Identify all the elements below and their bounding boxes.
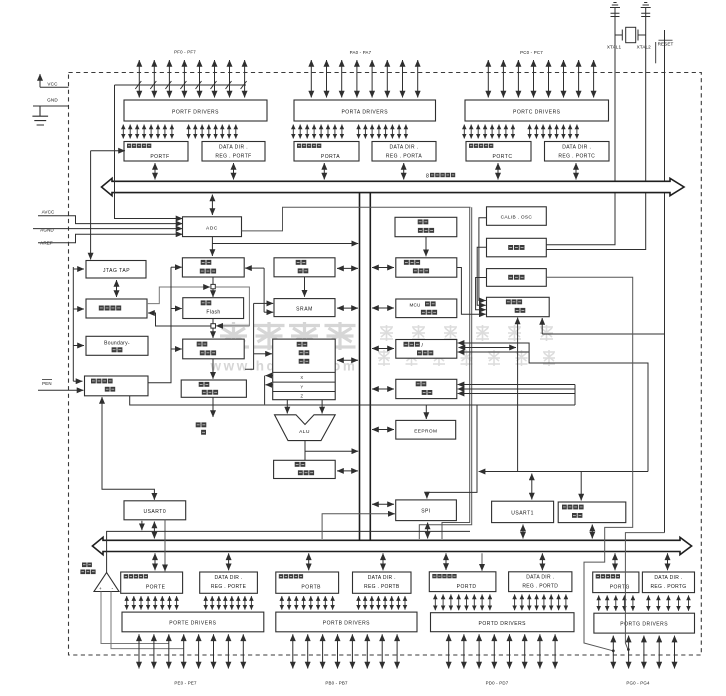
JTAG TAP to on-chip debug arrow [116, 280, 118, 297]
svg-text:AVCC: AVCC [42, 210, 55, 215]
data register PORTG [593, 572, 639, 593]
svg-text:RESET: RESET [658, 42, 674, 47]
oscillator 2 [487, 269, 547, 287]
USART1 clock arrow [531, 474, 533, 500]
data register PORTC [466, 142, 531, 162]
data register PORTD [429, 572, 496, 592]
watchdog timer [396, 258, 457, 277]
data direction register PORTF [202, 142, 265, 162]
8-bit data bus top [102, 178, 685, 195]
svg-text:REG . PORTA: REG . PORTA [386, 154, 422, 160]
instruction decoder [181, 380, 246, 397]
svg-text:PA0 - PA7: PA0 - PA7 [350, 50, 372, 55]
wire PORTF register to JTAG TAP [91, 150, 120, 152]
control lines arrow [212, 397, 214, 417]
svg-text:CALIB . OSC: CALIB . OSC [501, 214, 533, 220]
wire XTAL1 to oscillator [546, 17, 615, 245]
instruction register [183, 339, 245, 359]
comparator input wires [101, 592, 169, 644]
svg-text:REG . PORTE: REG . PORTE [211, 584, 247, 590]
status register [274, 460, 336, 478]
XTAL1 capacitor and ground [610, 3, 620, 17]
svg-text:REG . PORTF: REG . PORTF [215, 154, 251, 160]
wire RESET to timing and control [542, 333, 664, 335]
CPU column bus arrows [337, 267, 358, 269]
svg-text:Y: Y [300, 385, 303, 390]
wire RESET down [664, 30, 666, 533]
analog comparator [94, 573, 119, 592]
internal oscillator [395, 217, 457, 236]
OCD gray wire to breakpoints [147, 287, 204, 304]
data direction register PORTC [545, 142, 610, 162]
arrows registers to drivers PORTG [599, 595, 689, 610]
port pins PD0 - PD7 [449, 634, 555, 668]
svg-text:PORTD: PORTD [457, 584, 477, 590]
svg-text:DATA DIR .: DATA DIR . [219, 145, 248, 151]
watermark 华强集团旗下 [380, 325, 393, 341]
TWI clock arrow [580, 472, 582, 499]
arrows registers to drivers PORTE [127, 596, 252, 610]
clock net from timing and control [517, 319, 519, 472]
data register PORTF [124, 142, 188, 162]
crystal [626, 27, 636, 42]
pointer net C registers X Y [264, 376, 266, 405]
stack pointer [274, 258, 335, 277]
svg-text:XTAL2: XTAL2 [637, 45, 652, 50]
svg-text:-: - [111, 586, 113, 592]
wire oscillator2 to TOSC pins [546, 277, 632, 651]
extra line into PORTD register [481, 553, 483, 569]
breakpoint square 2 [211, 324, 216, 328]
svg-text:PORTA: PORTA [321, 154, 340, 160]
arrows drivers to registers PORTF [123, 125, 236, 139]
GND pin [33, 105, 69, 107]
arrows registers to drivers PORTD [435, 594, 566, 610]
arrow instruction register to decoder [212, 359, 214, 379]
comparator output wire [107, 531, 470, 572]
Boundary-scan [86, 336, 148, 355]
svg-text:PF0 - PF7: PF0 - PF7 [174, 50, 196, 55]
svg-text:+: + [99, 586, 102, 591]
wire programming logic to USART0 [102, 399, 154, 500]
svg-text:PORTB: PORTB [301, 584, 321, 590]
bus link arrows for top registers [154, 163, 156, 180]
arrows general registers to ALU [286, 400, 288, 414]
PORTD DRIVERS block [431, 613, 575, 632]
svg-text:XTAL1: XTAL1 [607, 45, 622, 50]
8-bit data bus bottom [92, 537, 691, 554]
wire ADC to program counter and bus [211, 237, 213, 254]
port pins PF0 - PF7 [139, 60, 244, 98]
svg-text:ADC: ADC [206, 225, 218, 231]
svg-text:MCU: MCU [409, 302, 420, 307]
port pins PC0 - PC7 [488, 60, 593, 98]
ADC [183, 217, 242, 237]
PORTB DRIVERS block [276, 612, 417, 632]
SPI [396, 500, 457, 521]
svg-text:PC0 - PC7: PC0 - PC7 [520, 50, 543, 55]
svg-text:SRAM: SRAM [296, 306, 313, 312]
interrupt unit [396, 379, 457, 398]
wire AVCC to ADC [38, 216, 174, 224]
svg-text:Z: Z [301, 394, 304, 399]
svg-text:DATA DIR .: DATA DIR . [368, 575, 396, 581]
svg-text:PORTC DRIVERS: PORTC DRIVERS [513, 110, 561, 116]
EEPROM [396, 420, 456, 439]
timing and control [487, 297, 550, 316]
svg-text:REG . PORTG: REG . PORTG [650, 584, 686, 590]
svg-text:VCC: VCC [47, 82, 58, 87]
svg-text:PORTD DRIVERS: PORTD DRIVERS [478, 621, 526, 627]
svg-text:PB0 - PB7: PB0 - PB7 [325, 681, 348, 686]
SPI left input stubs [372, 503, 394, 505]
svg-text:PORTE: PORTE [146, 584, 166, 590]
XTAL2 capacitor and ground [641, 3, 651, 17]
data direction register PORTA [372, 142, 436, 162]
svg-text:PORTG DRIVERS: PORTG DRIVERS [620, 622, 668, 628]
PORTG DRIVERS block [594, 613, 695, 633]
two-wire serial interface [558, 502, 626, 523]
arrows registers to drivers PORTB [282, 596, 405, 610]
arrow square2 to instruction register [212, 328, 214, 336]
analog comparator label [82, 563, 87, 568]
program counter [182, 258, 244, 277]
data direction register PORTB [353, 572, 412, 593]
wire AREF to ADC [38, 234, 174, 243]
programming logic service line [148, 267, 171, 383]
wire XTAL2 to oscillator [546, 17, 645, 250]
svg-text:DATA DIR .: DATA DIR . [389, 145, 418, 151]
data direction register PORTG [642, 572, 694, 593]
USART0 [124, 501, 186, 520]
port pins PE0 - PE7 [139, 634, 243, 668]
PORTA DRIVERS block [294, 100, 436, 121]
on-chip debug [86, 299, 147, 318]
calibrated oscillator [487, 207, 547, 226]
svg-text:PORTG: PORTG [610, 584, 630, 590]
data direction register PORTE [200, 572, 258, 593]
svg-text:DATA DIR .: DATA DIR . [654, 575, 682, 581]
oscillator 1 [487, 238, 547, 256]
svg-text:PORTB DRIVERS: PORTB DRIVERS [323, 621, 370, 627]
control lines label [196, 422, 201, 427]
JTAG TAP [86, 261, 146, 279]
pointer net A [245, 303, 254, 369]
arrow internal oscillator to watchdog [425, 237, 427, 257]
data register PORTA [294, 142, 359, 162]
data register PORTE [121, 572, 183, 593]
PORTF DRIVERS block [124, 100, 267, 121]
svg-text:X: X [300, 375, 303, 380]
vertical data bus channel [359, 193, 361, 541]
svg-text:PE0 - PE7: PE0 - PE7 [174, 681, 197, 686]
svg-text:PORTE DRIVERS: PORTE DRIVERS [169, 621, 216, 627]
data direction register PORTD [509, 572, 572, 592]
svg-text:EEPROM: EEPROM [414, 428, 437, 434]
svg-text:DATA DIR .: DATA DIR . [526, 575, 554, 581]
breakpoint square 1 [211, 284, 215, 288]
USART0 bus arrows [141, 521, 143, 529]
port pins PG0 - PG4 [613, 636, 674, 669]
svg-text:PD0 - PD7: PD0 - PD7 [486, 681, 509, 686]
wire ADC right to peripheral clock column [242, 207, 471, 231]
port pins PA0 - PA7 [311, 60, 417, 98]
ALU [275, 415, 336, 441]
oscillator feeds to timing and control [479, 218, 487, 301]
svg-text:PORTF: PORTF [150, 154, 169, 160]
svg-text:DATA DIR .: DATA DIR . [214, 575, 242, 581]
SRAM [274, 299, 335, 317]
port pins PB0 - PB7 [293, 634, 397, 668]
svg-text:USART1: USART1 [511, 511, 534, 517]
left service bus for JTAG column [72, 267, 74, 381]
svg-text:ALU: ALU [299, 429, 310, 435]
bus to ADC arrow [211, 195, 213, 216]
wire square2 to on-chip debug [152, 313, 211, 326]
watchdog to timing and control [457, 268, 484, 315]
USART1 bus arrow [522, 525, 524, 539]
svg-text:Boundary-: Boundary- [104, 341, 130, 347]
peripheral column bus arrows [372, 267, 394, 269]
svg-text:/: / [422, 343, 424, 349]
VCC pin [40, 86, 69, 88]
svg-text:PORTA DRIVERS: PORTA DRIVERS [341, 110, 388, 116]
programming logic to SPI / EEPROM wire [130, 396, 575, 405]
PORTE DRIVERS block [122, 612, 264, 632]
svg-text:PORTF DRIVERS: PORTF DRIVERS [172, 110, 219, 116]
watermark big 华强芯城 [218, 322, 249, 350]
ALU output wire [304, 441, 306, 460]
svg-text:REG . PORTD: REG . PORTD [522, 584, 558, 590]
svg-text:SPI: SPI [421, 509, 431, 515]
USART1 [492, 501, 554, 522]
svg-text:Flash: Flash [206, 310, 220, 316]
svg-text:PORTC: PORTC [493, 154, 513, 160]
svg-text:PEN: PEN [42, 381, 52, 386]
program flash [183, 298, 244, 319]
arrow stack pointer to SRAM [304, 277, 306, 297]
svg-text:REG . PORTB: REG . PORTB [364, 584, 400, 590]
general purpose registers [273, 339, 336, 400]
wire RESET branch to PG pin [625, 533, 664, 649]
bus link arrows for bottom registers [228, 553, 230, 570]
svg-text:USART0: USART0 [143, 509, 166, 515]
ADC input tap wire on PF pins [115, 84, 247, 86]
PORTC DRIVERS block [465, 100, 609, 121]
svg-text:JTAG TAP: JTAG TAP [103, 268, 130, 274]
svg-text:DATA DIR .: DATA DIR . [562, 145, 591, 151]
arrow square1 to program flash [212, 289, 214, 296]
svg-text:REG . PORTC: REG . PORTC [558, 154, 595, 160]
pointer net B program counter to SRAM [263, 268, 265, 312]
MCU control register [396, 299, 457, 318]
watermark 元器件在线商城 [378, 350, 390, 366]
svg-text:GND: GND [47, 98, 58, 103]
TWI bus arrow [591, 525, 593, 539]
svg-text:8: 8 [426, 174, 429, 180]
dashed chip border [69, 73, 702, 656]
data register PORTB [276, 572, 339, 593]
SPI bus arrow [427, 523, 429, 539]
arrows drivers to registers PORTC [464, 125, 577, 139]
svg-text:PG0 - PG4: PG0 - PG4 [626, 681, 650, 686]
wire PF tap to ADC [115, 85, 174, 219]
timer clock stub [459, 347, 517, 349]
arrows drivers to registers PORTA [293, 125, 406, 139]
interrupt unit stubs [462, 384, 575, 386]
wire AGND to ADC [33, 228, 174, 230]
timer/counters [396, 340, 457, 359]
programming logic [85, 376, 149, 396]
